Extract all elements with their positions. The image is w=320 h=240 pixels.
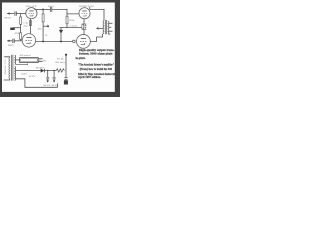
svg-text:470k: 470k	[14, 32, 20, 35]
output transformer primary	[102, 20, 105, 34]
svg-text:8µF 450: 8µF 450	[51, 84, 58, 87]
power transformer primary	[8, 58, 11, 79]
capacitor C1	[15, 11, 16, 15]
junction blob before V3	[73, 40, 76, 43]
svg-text:INPUT: INPUT	[8, 44, 14, 47]
tube V2L driver	[22, 34, 35, 47]
junction node	[42, 8, 44, 10]
B+ riser	[65, 56, 68, 71]
svg-text:April 1937 edition.: April 1937 edition.	[78, 76, 101, 79]
V2 cathode	[83, 15, 86, 16]
input arrow ch1	[7, 13, 14, 15]
V3 cathode	[81, 43, 85, 44]
rectifier box	[20, 58, 39, 63]
wire to plate resistor	[42, 9, 44, 14]
V2 plate stub	[89, 7, 91, 9]
V2 cathode lead	[83, 19, 85, 24]
filter cap 1	[47, 70, 48, 71]
secondary LT winding	[14, 66, 17, 80]
junction dot	[42, 40, 44, 42]
filter cap 3	[65, 71, 67, 78]
cathode resistor marks	[29, 21, 31, 26]
V2L grid dashes	[26, 40, 33, 42]
secondary leads	[16, 70, 56, 72]
filter cap 2	[53, 70, 54, 71]
power transformer core	[12, 55, 13, 81]
svg-text:470k: 470k	[69, 19, 75, 22]
primary CT lead	[97, 27, 103, 29]
V2L plate lead right	[36, 40, 73, 42]
svg-text:6J5 GT.: 6J5 GT.	[26, 5, 37, 8]
ground block	[64, 80, 68, 84]
cathode RC network	[82, 23, 87, 25]
wire R2 down	[42, 22, 44, 42]
wire to V1 grid	[17, 13, 26, 15]
frame bottom	[0, 92, 120, 97]
rectifier diode	[41, 69, 45, 73]
svg-text:A.C. MAINS: A.C. MAINS	[3, 60, 6, 76]
wire junction to grid resistor	[20, 14, 22, 18]
input arrow ch2	[7, 40, 12, 42]
frame left	[0, 0, 2, 97]
svg-text:to heater: to heater	[70, 24, 78, 27]
resistor R4 lower grid	[20, 28, 22, 33]
right caption text block	[76, 49, 116, 79]
svg-text:25µ: 25µ	[24, 24, 29, 27]
junction node 61	[60, 40, 62, 42]
output transformer secondary	[107, 21, 110, 34]
V1 grid dashes	[28, 12, 34, 14]
tube V1	[26, 8, 37, 19]
secondary taps	[109, 22, 113, 24]
resistor R2	[42, 14, 44, 22]
ground rail left	[13, 27, 21, 29]
chassis triangle	[60, 28, 62, 30]
ground rail middle	[59, 27, 81, 29]
capacitor C3	[13, 39, 14, 43]
HT+ branch	[43, 25, 47, 27]
V3 grid dashes	[80, 41, 87, 43]
V2 plate wire to transformer	[90, 9, 104, 20]
wire to V2L grid	[15, 40, 23, 42]
svg-text:MET.RECT: MET.RECT	[36, 66, 45, 69]
wire R1 to ground rail	[20, 24, 22, 27]
frame right	[115, 0, 120, 97]
grid resistor R3	[66, 14, 68, 16]
V1 cathode to V2L plate wire	[29, 19, 31, 34]
text smudges (tiny labels)	[3, 5, 94, 87]
svg-text:8µF 450: 8µF 450	[43, 84, 50, 87]
svg-text:6.3V: 6.3V	[29, 75, 36, 78]
coupling cap C2	[50, 7, 51, 12]
smoothing choke	[56, 69, 64, 72]
svg-text:"The Armchair listener's ampli: "The Armchair listener's amplifier"	[78, 63, 114, 66]
svg-text:OUTPUT 6V6: OUTPUT 6V6	[79, 5, 95, 8]
svg-text:80 m/a: 80 m/a	[55, 61, 66, 64]
V3 anode bar	[81, 38, 86, 40]
V2L cathode	[26, 42, 30, 43]
V1 plate lead to rail	[34, 8, 36, 11]
primary leads	[4, 56, 10, 59]
secondary HT winding	[14, 55, 17, 64]
transformer core	[105, 20, 106, 34]
tube V2 output top	[79, 8, 90, 19]
svg-text:former, 5000 ohms plate: former, 5000 ohms plate	[79, 53, 114, 56]
svg-text:350V: 350V	[21, 73, 27, 76]
tube V3 output lower	[77, 35, 91, 49]
anode rail y9.4	[35, 8, 51, 10]
V1 anode bar	[29, 10, 33, 12]
V3 plate lead staircase to transformer	[90, 34, 102, 42]
link to rectifier box	[16, 59, 20, 61]
V1 cathode	[30, 15, 33, 16]
V2 anode bar	[82, 10, 86, 12]
secondary tap lead	[16, 64, 28, 66]
wire RC to V3 top	[83, 29, 85, 34]
svg-text:in-plate.: in-plate.	[76, 57, 86, 60]
V2L anode bar	[26, 37, 31, 39]
frame top	[0, 0, 120, 3]
svg-text:6.3V: 6.3V	[39, 59, 47, 62]
resistor R1	[20, 17, 22, 24]
svg-text:INPUT: INPUT	[4, 17, 11, 20]
svg-text:(From) how to build the 500: (From) how to build the 500	[80, 68, 113, 71]
box leads	[38, 59, 42, 62]
svg-text:4 Ω heaters: 4 Ω heaters	[20, 54, 31, 57]
ground chassis bar	[10, 28, 15, 30]
V2 grid dashes	[82, 13, 88, 15]
wire C2 to V2 grid	[52, 9, 79, 14]
